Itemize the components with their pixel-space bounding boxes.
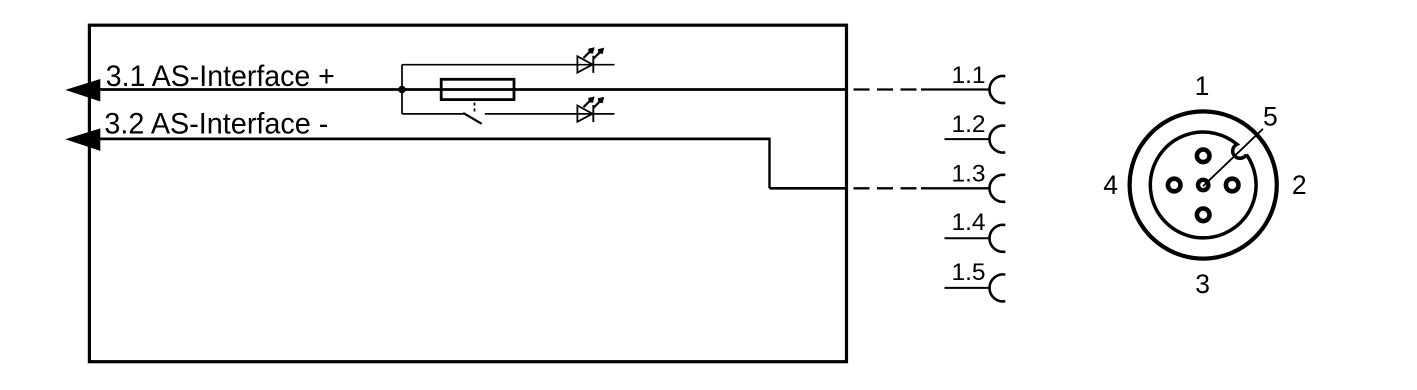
wire 3.2 vertical drop <box>768 138 770 189</box>
pin socket 1.4 <box>989 225 1005 252</box>
connector pin 1 hole (top) <box>1197 150 1210 163</box>
arrow 3.2 AS-Interface - <box>65 128 100 151</box>
wire 3.1 main line <box>98 88 846 91</box>
pin socket 1.3 <box>989 175 1005 202</box>
svg-text:4: 4 <box>1103 170 1118 200</box>
dashed trip link <box>474 103 476 114</box>
wire 3.2 horizontal <box>98 138 770 141</box>
module box outline <box>89 25 846 362</box>
connector M12 outer circle <box>1130 111 1277 258</box>
wire branch vertical <box>401 65 403 114</box>
switch blade <box>463 113 482 124</box>
wire upper branch <box>402 64 615 66</box>
LED D1 emission arrow a <box>584 47 595 58</box>
pointer line pin 5 <box>1203 129 1263 186</box>
pin socket 1.1 <box>989 76 1005 103</box>
svg-text:1: 1 <box>1195 71 1210 101</box>
wire 1.5 stub <box>945 287 991 289</box>
fuse F1 <box>441 79 514 99</box>
svg-text:3: 3 <box>1195 269 1210 299</box>
svg-text:3.2 AS-Interface -: 3.2 AS-Interface - <box>104 107 328 140</box>
LED D1 cathode bar <box>592 56 594 73</box>
svg-text:5: 5 <box>1263 101 1278 131</box>
connector pin 4 hole (left) <box>1168 179 1181 192</box>
wire lower branch right <box>485 113 615 115</box>
LED D2 triangle <box>577 106 592 122</box>
wire 3.2 to box edge <box>770 187 847 190</box>
pin socket 1.2 <box>989 126 1005 153</box>
LED D1 emission arrow b <box>594 48 605 59</box>
LED D2 emission arrow a <box>584 96 595 107</box>
connector M12 inner circle with keyway notch <box>1150 132 1256 238</box>
node junction dot <box>398 86 406 94</box>
arrow 3.1 AS-Interface + <box>65 79 100 102</box>
connector pin 3 hole (bottom) <box>1197 209 1210 222</box>
wire 1.4 stub <box>945 237 991 239</box>
LED D1 triangle <box>577 56 592 72</box>
wire 1.1 solid <box>921 88 990 90</box>
svg-text:2: 2 <box>1292 170 1307 200</box>
pin socket 1.5 <box>989 274 1005 301</box>
connector pin 5 hole (center) <box>1198 180 1208 190</box>
svg-text:1.2: 1.2 <box>951 111 985 138</box>
wire 1.1 dashed <box>854 88 917 90</box>
connector pin 2 hole (right) <box>1226 179 1239 192</box>
svg-text:1.5: 1.5 <box>951 259 985 286</box>
wire lower branch left <box>402 113 465 115</box>
wire 1.3 solid <box>921 187 990 189</box>
svg-text:1.4: 1.4 <box>951 209 985 236</box>
LED D2 cathode bar <box>592 105 594 122</box>
wire 1.3 dashed <box>854 187 917 189</box>
svg-text:1.1: 1.1 <box>951 62 985 89</box>
svg-text:1.3: 1.3 <box>951 160 985 187</box>
LED D2 emission arrow b <box>594 97 605 108</box>
wire 1.2 stub <box>945 138 991 140</box>
